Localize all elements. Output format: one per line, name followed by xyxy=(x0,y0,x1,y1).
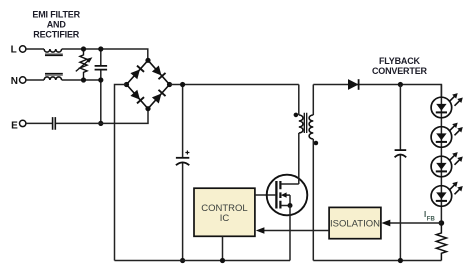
core bars of N-line choke xyxy=(45,73,63,75)
terminal N xyxy=(11,76,26,87)
varistor RV1 zigzag xyxy=(80,48,87,80)
capacitor C1 bulk electrolytic xyxy=(176,85,189,261)
transistor Q1 channel dashes xyxy=(279,181,281,209)
svg-text:E: E xyxy=(11,120,18,131)
LED D7 xyxy=(431,123,463,148)
diode D5 flyback rectifier xyxy=(348,79,359,90)
svg-text:N: N xyxy=(11,76,18,87)
svg-text:L: L xyxy=(11,44,17,55)
wire X-cap column xyxy=(100,49,102,123)
junction dot bridge left vertex xyxy=(124,82,129,87)
bridge diode D4 (bottom-right edge) xyxy=(152,90,166,104)
svg-text:AND: AND xyxy=(47,20,67,30)
wire DC+ rail left segment xyxy=(170,84,299,86)
junction dot bridge top vertex xyxy=(145,58,150,63)
wire LED string xyxy=(440,85,442,224)
transformer T1 primary winding xyxy=(299,115,303,133)
label FLYBACK CONVERTER xyxy=(372,56,428,76)
core bars of L-line choke xyxy=(45,54,63,55)
capacitor C2 output xyxy=(395,85,407,261)
capacitor X-cap plates xyxy=(95,66,108,70)
wire bottom rail primary side xyxy=(115,260,291,262)
wire DC rail right segment xyxy=(313,85,441,98)
terminal L xyxy=(11,44,26,55)
wire L line xyxy=(26,49,148,60)
junction dot bridge bottom vertex xyxy=(145,106,150,111)
svg-text:FB: FB xyxy=(427,217,436,223)
wire feedback isolation to control IC xyxy=(264,230,330,232)
wire control IC ground xyxy=(222,236,224,260)
transistor Q1 body arrow xyxy=(281,192,290,205)
junction dot output cap top xyxy=(398,82,403,87)
junction dot E-cap column xyxy=(98,121,103,126)
junction dot IC ground xyxy=(220,258,225,263)
isolation box U2 xyxy=(329,207,381,238)
transformer T1 phase dot primary xyxy=(294,113,299,118)
junction dot bridge right vertex xyxy=(167,82,172,87)
inductor N-line choke winding xyxy=(44,77,61,80)
transistor Q1 gate bar xyxy=(275,181,277,209)
bridge diode D3 (left-bottom edge) xyxy=(130,90,144,104)
svg-text:RECTIFIER: RECTIFIER xyxy=(33,30,80,40)
bridge rectifier diamond xyxy=(127,60,170,108)
wire bottom rail secondary side xyxy=(313,260,441,262)
svg-text:ISOLATION: ISOLATION xyxy=(330,218,380,229)
control IC box U1 xyxy=(194,188,255,236)
wire Q1 source to rail xyxy=(289,206,291,261)
resistor R1 sense xyxy=(436,223,446,261)
LED D6 xyxy=(431,93,463,118)
transformer T1 phase dot secondary xyxy=(314,141,319,146)
svg-text:EMI FILTER: EMI FILTER xyxy=(32,9,80,19)
label IFB xyxy=(424,210,435,223)
wire rail to transformer primary xyxy=(298,85,300,116)
terminal E xyxy=(11,120,26,131)
varistor RV1 arrow xyxy=(76,57,93,71)
transistor Q1 MOSFET body circle xyxy=(267,175,308,216)
LED D8 xyxy=(431,152,463,177)
node IFB junction dot xyxy=(439,220,445,226)
wire rail to transformer secondary xyxy=(312,85,314,116)
transformer T1 core bars xyxy=(304,113,306,133)
bridge diode D1 (left-top edge) xyxy=(130,66,144,80)
junction dot L-varistor xyxy=(81,46,86,51)
arrowhead into isolation box xyxy=(381,220,390,227)
wire E line xyxy=(26,109,148,124)
arrowhead into control IC xyxy=(256,227,265,234)
label CONTROL IC xyxy=(201,203,247,224)
svg-text:FLYBACK: FLYBACK xyxy=(379,56,421,66)
svg-text:IC: IC xyxy=(220,213,230,224)
bridge diode D2 (top-right edge) xyxy=(152,65,166,79)
label C1 plus sign xyxy=(185,151,189,155)
junction dot C1 top xyxy=(180,82,185,87)
capacitor E-line series cap xyxy=(53,117,56,130)
wire feedback to isolation xyxy=(390,222,442,224)
wire drain riser to transformer primary xyxy=(298,133,300,184)
junction dot N-cap xyxy=(98,77,103,82)
junction dot Q1 source xyxy=(288,203,293,208)
wire gate drive xyxy=(255,194,276,196)
junction dot L-cap xyxy=(98,46,103,51)
junction dot output cap bottom xyxy=(398,258,403,263)
junction dot N-varistor xyxy=(81,77,86,82)
svg-text:CONVERTER: CONVERTER xyxy=(372,66,428,76)
transformer T1 secondary winding xyxy=(309,115,313,139)
transistor Q1 drain link xyxy=(281,183,299,185)
transistor Q1 source link xyxy=(281,205,290,207)
junction dot C1 bottom xyxy=(180,258,185,263)
LED D9 xyxy=(431,182,463,207)
label EMI FILTER AND RECTIFIER xyxy=(32,9,80,39)
wire N line xyxy=(26,79,101,81)
wire secondary to bottom rail xyxy=(312,139,314,261)
wire bridge negative to bottom rail xyxy=(115,85,127,261)
inductor L-line choke winding xyxy=(44,49,61,52)
